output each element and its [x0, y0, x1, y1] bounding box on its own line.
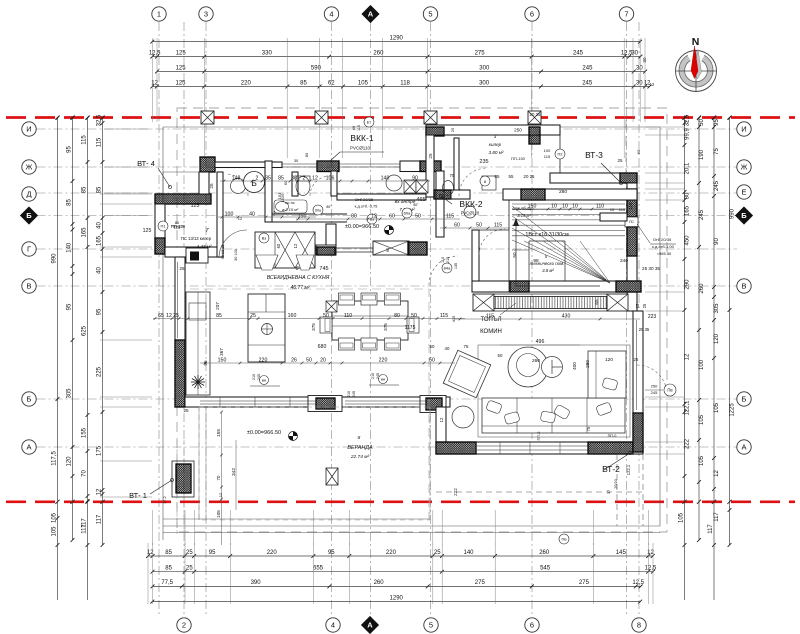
svg-text:40: 40 [97, 267, 103, 274]
svg-text:95: 95 [67, 146, 73, 153]
svg-text:210: 210 [347, 391, 351, 397]
svg-text:17,2: 17,2 [163, 496, 167, 503]
svg-text:50: 50 [498, 353, 503, 358]
svg-text:12: 12 [293, 243, 298, 248]
svg-text:8: 8 [358, 435, 361, 441]
svg-text:430: 430 [562, 313, 571, 319]
svg-text:ВСЕКИДНЕВНА С КУХНЯ: ВСЕКИДНЕВНА С КУХНЯ [267, 275, 330, 281]
svg-text:В: В [26, 282, 31, 291]
svg-text:95: 95 [209, 550, 216, 556]
svg-text:П1: П1 [160, 224, 166, 229]
svg-text:290: 290 [685, 279, 691, 290]
svg-text:30: 30 [636, 80, 643, 86]
svg-text:140: 140 [381, 175, 390, 181]
svg-text:220: 220 [267, 550, 278, 556]
svg-text:50: 50 [323, 313, 329, 319]
svg-text:Вз: Вз [262, 236, 267, 241]
svg-text:590: 590 [311, 65, 322, 71]
svg-text:50: 50 [476, 222, 482, 228]
svg-text:50: 50 [699, 119, 705, 126]
svg-text:260: 260 [699, 283, 705, 294]
svg-text:115: 115 [446, 213, 454, 219]
svg-text:80: 80 [351, 213, 357, 219]
svg-text:117: 117 [708, 524, 714, 534]
svg-text:Б: Б [26, 211, 32, 220]
svg-text:И: И [741, 125, 746, 134]
svg-text:80: 80 [304, 152, 309, 157]
svg-text:105: 105 [679, 512, 685, 523]
svg-text:207: 207 [215, 302, 220, 310]
svg-text:⌀ 2.15 м²: ⌀ 2.15 м² [282, 207, 299, 212]
svg-text:122,1: 122,1 [626, 464, 631, 475]
svg-text:1290: 1290 [390, 35, 404, 41]
svg-text:1525: 1525 [280, 193, 285, 203]
svg-text:Б: Б [27, 395, 32, 404]
svg-text:225: 225 [97, 366, 103, 377]
svg-text:222: 222 [685, 438, 691, 449]
svg-text:25: 25 [450, 127, 455, 132]
svg-text:12: 12 [166, 313, 172, 319]
svg-text:30: 30 [636, 65, 643, 71]
svg-text:к.д.отб.-3.75: к.д.отб.-3.75 [355, 204, 379, 209]
svg-text:25 30 35: 25 30 35 [642, 266, 660, 271]
svg-text:РVСØ110: РVСØ110 [461, 211, 480, 216]
svg-text:50: 50 [415, 213, 421, 219]
svg-text:1Вст х16 31/30см: 1Вст х16 31/30см [525, 232, 569, 238]
svg-text:10: 10 [572, 203, 578, 209]
svg-text:Отб 20/25: Отб 20/25 [355, 197, 374, 202]
svg-text:245: 245 [352, 391, 356, 397]
svg-text:±0.00=966.50: ±0.00=966.50 [345, 224, 379, 230]
svg-text:117: 117 [82, 524, 88, 534]
svg-text:10: 10 [551, 203, 557, 209]
svg-text:545: 545 [540, 566, 551, 572]
svg-text:12: 12 [650, 82, 655, 87]
svg-text:ВТ-3: ВТ-3 [585, 150, 603, 160]
svg-text:260: 260 [539, 550, 550, 556]
svg-text:400: 400 [572, 362, 577, 370]
svg-text:155: 155 [82, 427, 88, 438]
svg-text:2: 2 [303, 175, 306, 181]
svg-text:Пв: Пв [667, 388, 673, 393]
svg-text:2: 2 [256, 175, 259, 181]
svg-text:70: 70 [216, 475, 221, 480]
svg-text:305: 305 [67, 388, 73, 399]
svg-text:20: 20 [320, 357, 326, 363]
svg-text:125: 125 [191, 203, 200, 209]
svg-text:60а: 60а [404, 211, 411, 216]
svg-text:105: 105 [714, 402, 720, 413]
svg-text:ПП-0: ПП-0 [608, 434, 617, 438]
svg-text:вн: вн [381, 377, 385, 382]
svg-text:210: 210 [446, 257, 450, 263]
svg-text:50: 50 [512, 252, 517, 258]
svg-text:25: 25 [635, 303, 640, 308]
svg-text:115: 115 [174, 225, 181, 230]
svg-text:килер: килер [489, 142, 502, 147]
svg-text:106: 106 [326, 175, 335, 181]
svg-text:И: И [26, 125, 31, 134]
svg-text:122,1: 122,1 [685, 400, 691, 416]
svg-text:80°: 80° [413, 203, 419, 207]
svg-text:150: 150 [528, 203, 537, 209]
svg-text:496: 496 [536, 339, 545, 345]
svg-text:10: 10 [562, 203, 568, 209]
svg-text:Пв: Пв [562, 537, 567, 542]
svg-text:55: 55 [509, 174, 514, 179]
svg-text:20,1: 20,1 [685, 162, 691, 174]
svg-text:4: 4 [329, 10, 333, 19]
svg-text:250: 250 [514, 128, 522, 133]
svg-text:85: 85 [82, 186, 88, 193]
svg-text:40: 40 [249, 211, 255, 217]
svg-text:240: 240 [620, 258, 628, 264]
svg-text:1290: 1290 [390, 595, 404, 601]
svg-text:Б: Б [741, 211, 747, 220]
svg-text:ПП-130: ПП-130 [511, 156, 526, 161]
svg-text:145: 145 [616, 550, 627, 556]
svg-text:ВЕРАНДА: ВЕРАНДА [347, 445, 373, 451]
svg-text:35: 35 [265, 175, 271, 181]
svg-text:390: 390 [251, 580, 262, 586]
svg-text:ПС 13/13 килер: ПС 13/13 килер [181, 236, 212, 241]
svg-text:245: 245 [573, 50, 584, 56]
svg-text:110: 110 [596, 203, 604, 209]
svg-text:25: 25 [186, 566, 193, 572]
svg-text:к.д.отб-1.00: к.д.отб-1.00 [652, 244, 674, 249]
svg-text:160: 160 [288, 313, 297, 319]
svg-text:120: 120 [605, 357, 613, 363]
svg-text:655: 655 [313, 566, 324, 572]
svg-text:300: 300 [479, 80, 490, 86]
svg-text:110: 110 [628, 202, 633, 209]
svg-text:20 25: 20 25 [530, 112, 542, 117]
svg-text:5: 5 [429, 621, 433, 630]
svg-text:ВКК-1: ВКК-1 [350, 133, 373, 143]
svg-text:105: 105 [52, 512, 58, 523]
svg-text:98: 98 [533, 258, 539, 264]
svg-text:2: 2 [273, 211, 276, 217]
svg-text:20 25: 20 25 [524, 174, 536, 179]
svg-text:25 35: 25 35 [639, 327, 650, 332]
svg-text:155: 155 [216, 429, 222, 437]
svg-text:165: 165 [82, 227, 88, 238]
svg-text:280: 280 [585, 360, 590, 368]
svg-text:60: 60 [385, 247, 390, 252]
svg-text:105: 105 [358, 80, 369, 86]
svg-text:65: 65 [158, 313, 164, 319]
svg-text:275: 275 [475, 580, 486, 586]
svg-text:Д: Д [26, 190, 31, 199]
svg-text:70: 70 [82, 470, 88, 477]
svg-text:367: 367 [219, 348, 224, 356]
svg-text:6: 6 [530, 621, 534, 630]
svg-text:60: 60 [389, 213, 395, 219]
svg-text:95: 95 [67, 303, 73, 310]
svg-text:85: 85 [165, 566, 172, 572]
svg-text:210: 210 [252, 374, 256, 380]
svg-text:115: 115 [97, 137, 103, 147]
svg-text:90: 90 [412, 175, 418, 181]
svg-text:85: 85 [165, 550, 172, 556]
svg-text:990: 990 [52, 253, 58, 264]
svg-text:745: 745 [319, 266, 328, 272]
svg-text:115: 115 [544, 154, 551, 159]
svg-text:85: 85 [97, 186, 103, 193]
svg-text:80: 80 [394, 313, 400, 319]
svg-text:450: 450 [685, 235, 691, 246]
svg-text:85: 85 [278, 175, 284, 181]
svg-text:Е: Е [741, 188, 746, 197]
svg-text:84а: 84а [444, 266, 451, 271]
svg-text:12: 12 [238, 216, 243, 221]
svg-text:625: 625 [82, 325, 88, 336]
svg-text:96: 96 [203, 360, 208, 366]
svg-text:A: A [367, 621, 373, 630]
svg-text:30 13 15: 30 13 15 [221, 245, 225, 260]
svg-text:117,5: 117,5 [52, 451, 58, 466]
svg-text:135: 135 [454, 263, 458, 269]
svg-text:77,5: 77,5 [161, 580, 173, 586]
svg-text:40: 40 [445, 346, 450, 351]
svg-text:25: 25 [434, 550, 441, 556]
svg-text:ис пс: ис пс [285, 200, 295, 205]
svg-text:Б: Б [742, 395, 747, 404]
svg-text:25: 25 [634, 357, 639, 362]
svg-text:1225: 1225 [730, 403, 736, 417]
svg-text:245: 245 [582, 65, 593, 71]
svg-text:305: 305 [714, 303, 720, 314]
svg-text:КОМИН: КОМИН [480, 329, 502, 335]
svg-text:А: А [26, 443, 31, 452]
svg-text:105: 105 [699, 455, 705, 466]
svg-text:4.43 м²: 4.43 м² [197, 244, 212, 249]
svg-text:62: 62 [328, 80, 335, 86]
svg-text:6: 6 [530, 10, 534, 19]
svg-text:12,5: 12,5 [149, 50, 161, 56]
svg-text:95: 95 [97, 308, 103, 315]
svg-text:80: 80 [352, 126, 356, 130]
svg-text:90: 90 [714, 238, 720, 245]
svg-text:8: 8 [637, 621, 641, 630]
svg-text:4: 4 [331, 621, 335, 630]
svg-text:330: 330 [262, 50, 273, 56]
svg-text:110: 110 [344, 313, 352, 319]
svg-text:105: 105 [216, 510, 221, 518]
svg-text:115: 115 [440, 313, 448, 319]
svg-text:В: В [741, 282, 746, 291]
svg-text:280: 280 [559, 189, 567, 195]
svg-text:1: 1 [157, 10, 161, 19]
svg-text:3.19 м²: 3.19 м² [517, 213, 531, 218]
svg-text:120: 120 [714, 333, 720, 344]
svg-text:85: 85 [300, 80, 307, 86]
svg-text:223: 223 [648, 314, 657, 320]
svg-text:220: 220 [386, 550, 397, 556]
svg-text:245: 245 [714, 180, 720, 191]
svg-text:2: 2 [182, 621, 186, 630]
svg-text:125: 125 [176, 65, 187, 71]
svg-text:A: A [368, 10, 374, 19]
svg-text:25: 25 [250, 313, 256, 319]
svg-text:=965.50: =965.50 [657, 251, 672, 256]
svg-text:Ет: Ет [367, 120, 372, 125]
svg-text:3.8 м²: 3.8 м² [542, 268, 554, 273]
svg-text:117: 117 [97, 514, 103, 524]
svg-text:300: 300 [479, 65, 490, 71]
svg-text:ПС: ПС [629, 220, 635, 224]
svg-text:95: 95 [714, 119, 720, 126]
svg-text:50: 50 [411, 313, 417, 319]
svg-text:7: 7 [624, 10, 628, 19]
svg-text:99,9: 99,9 [685, 128, 691, 140]
svg-text:25: 25 [428, 153, 433, 159]
svg-text:П2: П2 [557, 152, 563, 157]
svg-text:245: 245 [376, 373, 380, 379]
svg-text:115: 115 [486, 313, 494, 319]
svg-text:100: 100 [544, 148, 551, 153]
svg-text:140: 140 [67, 242, 73, 253]
svg-text:118: 118 [400, 80, 410, 86]
svg-text:25: 25 [173, 313, 179, 319]
svg-text:85: 85 [67, 199, 73, 206]
svg-text:680: 680 [318, 344, 327, 350]
svg-text:220: 220 [259, 357, 268, 363]
svg-text:60: 60 [636, 149, 641, 154]
svg-text:26: 26 [291, 357, 297, 363]
svg-text:85: 85 [216, 313, 222, 319]
svg-text:32,5: 32,5 [97, 114, 103, 126]
svg-text:110: 110 [441, 257, 445, 263]
svg-text:220: 220 [379, 357, 388, 363]
svg-text:235: 235 [479, 159, 488, 165]
svg-text:105: 105 [699, 414, 705, 425]
svg-text:12: 12 [371, 213, 377, 219]
svg-text:12: 12 [218, 492, 223, 497]
svg-text:12,5: 12,5 [645, 566, 657, 572]
svg-text:Г: Г [27, 245, 31, 254]
svg-text:100: 100 [225, 211, 234, 217]
svg-text:N: N [692, 36, 700, 48]
svg-text:38: 38 [291, 175, 297, 181]
svg-text:Ж: Ж [741, 163, 748, 172]
svg-text:175: 175 [97, 445, 103, 456]
svg-text:210: 210 [371, 373, 375, 379]
svg-text:148: 148 [232, 175, 241, 181]
svg-text:ВТ- 4: ВТ- 4 [137, 159, 155, 168]
svg-text:65: 65 [594, 299, 599, 305]
svg-text:125: 125 [175, 80, 186, 86]
svg-text:Ж: Ж [26, 163, 33, 172]
svg-text:120: 120 [67, 456, 73, 467]
svg-text:А: А [741, 443, 746, 452]
svg-text:75: 75 [714, 148, 720, 155]
svg-text:415: 415 [451, 315, 456, 322]
svg-text:125: 125 [143, 228, 152, 234]
svg-text:275: 275 [579, 580, 590, 586]
svg-text:ВТ- 1: ВТ- 1 [129, 491, 147, 500]
svg-text:250: 250 [651, 384, 658, 389]
svg-text:50: 50 [430, 344, 435, 349]
svg-text:60: 60 [454, 222, 460, 228]
svg-text:375: 375 [311, 323, 316, 331]
svg-text:25: 25 [183, 408, 189, 413]
svg-text:±0.00=966.50: ±0.00=966.50 [247, 430, 281, 436]
svg-text:220: 220 [241, 80, 252, 86]
svg-text:990: 990 [730, 208, 736, 219]
svg-text:30: 30 [642, 57, 647, 63]
svg-text:115: 115 [357, 125, 361, 131]
svg-text:105: 105 [52, 526, 58, 537]
svg-text:ПП-0: ПП-0 [537, 432, 541, 441]
svg-text:12: 12 [685, 353, 691, 360]
svg-text:30: 30 [631, 50, 638, 56]
svg-text:165: 165 [97, 235, 103, 246]
svg-text:75: 75 [586, 426, 591, 431]
svg-text:115: 115 [494, 222, 502, 228]
svg-text:ВКК-2: ВКК-2 [459, 199, 482, 209]
svg-text:12: 12 [439, 417, 444, 422]
svg-text:375: 375 [383, 323, 388, 331]
svg-text:25: 25 [642, 303, 647, 308]
svg-text:150: 150 [298, 213, 307, 219]
svg-text:3: 3 [204, 10, 208, 19]
svg-text:245: 245 [582, 80, 593, 86]
svg-text:5: 5 [428, 10, 432, 19]
svg-text:60: 60 [276, 243, 281, 248]
svg-text:30 100: 30 100 [234, 249, 238, 261]
svg-text:22.74 м²: 22.74 м² [350, 454, 370, 460]
svg-text:75: 75 [464, 344, 469, 349]
svg-text:260: 260 [532, 358, 540, 364]
svg-text:222: 222 [453, 488, 458, 496]
svg-text:Отб 20/35: Отб 20/35 [653, 237, 672, 242]
svg-text:25: 25 [618, 158, 623, 163]
svg-text:275: 275 [475, 50, 486, 56]
svg-text:25: 25 [209, 183, 214, 189]
svg-text:3.80 м²: 3.80 м² [489, 150, 504, 155]
svg-text:260: 260 [374, 580, 385, 586]
svg-text:50: 50 [306, 357, 312, 363]
svg-text:60а: 60а [315, 209, 321, 213]
svg-text:115: 115 [82, 135, 88, 145]
svg-text:50: 50 [429, 357, 435, 363]
svg-text:12: 12 [312, 175, 318, 181]
svg-text:PVCØ110: PVCØ110 [350, 146, 370, 151]
svg-text:1175: 1175 [405, 325, 416, 331]
svg-text:10: 10 [610, 207, 615, 212]
svg-text:117: 117 [714, 512, 720, 522]
svg-text:85: 85 [495, 174, 500, 179]
svg-text:100: 100 [699, 359, 705, 370]
svg-text:80°: 80° [326, 205, 332, 209]
svg-text:140: 140 [463, 550, 474, 556]
svg-text:165: 165 [685, 205, 691, 216]
svg-text:190: 190 [699, 149, 705, 160]
svg-text:245: 245 [699, 209, 705, 220]
svg-text:125: 125 [176, 50, 187, 56]
svg-text:37: 37 [606, 489, 611, 494]
svg-text:95: 95 [328, 550, 335, 556]
svg-text:75: 75 [450, 173, 455, 178]
svg-text:25: 25 [186, 550, 193, 556]
svg-text:вн: вн [262, 378, 266, 383]
svg-text:150: 150 [218, 357, 227, 363]
svg-text:12,5: 12,5 [632, 580, 644, 586]
svg-text:25/20: 25/20 [614, 479, 618, 489]
svg-text:110: 110 [619, 207, 626, 212]
svg-text:245: 245 [651, 390, 658, 395]
